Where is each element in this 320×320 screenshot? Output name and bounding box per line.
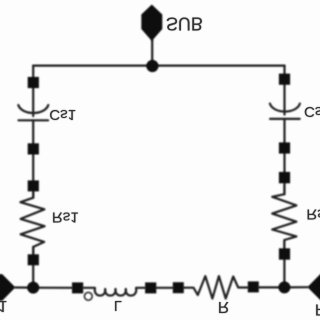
wire bottom: left junction to inductor pin (33, 287, 72, 289)
wire top horizontal bus (33, 64, 284, 66)
pin pad Rs2 top (279, 172, 290, 183)
label P1 (flipped, clipped at left edge) (0, 297, 7, 314)
svg-text:Rs1: Rs1 (52, 209, 79, 226)
junction node bottom-right (278, 281, 290, 293)
label R (flipped) (218, 298, 229, 315)
wire right branch lower (Rs2 to right junction) (283, 240, 285, 287)
svg-text:Rs2: Rs2 (306, 205, 320, 222)
capacitor Cs1 (18, 105, 48, 120)
wire left branch mid (Cs1 plate to Rs1) (32, 120, 34, 197)
svg-text:L: L (114, 297, 122, 313)
svg-text:SUB: SUB (166, 13, 203, 33)
wire right branch mid (Cs2 plate to Rs2) (283, 119, 285, 194)
pin pad R left (173, 282, 184, 293)
svg-text:P2: P2 (315, 301, 320, 318)
pin pad Cs2 top (279, 74, 290, 85)
wire SUB stem (151, 40, 153, 66)
svg-text:P1: P1 (0, 297, 7, 314)
junction node top (SUB bus) (146, 60, 158, 72)
inductor L (83, 288, 145, 300)
port P1 symbol (left, clipped) (0, 274, 15, 301)
wire left branch lower (Rs1 to left junction) (32, 247, 34, 288)
svg-text:Cs2: Cs2 (304, 103, 320, 120)
label Cs1 (flipped) (49, 106, 76, 123)
wire bottom: right junction to right port (284, 286, 307, 288)
wire right branch upper (corner to Cs2 curved plate) (283, 66, 285, 115)
pin pad L right (145, 282, 156, 293)
label Rs1 (flipped) (52, 209, 79, 226)
port SUB symbol (141, 5, 162, 42)
svg-text:Cs1: Cs1 (49, 106, 76, 123)
junction node bottom-left (27, 282, 39, 294)
resistor Rs1 (20, 192, 44, 255)
wire bottom: left port to left junction (15, 286, 33, 288)
label L (flipped) (114, 297, 122, 313)
pin pad Rs2 bottom (279, 248, 290, 259)
resistor Rs2 (272, 185, 296, 247)
pin pad Cs2 bottom (279, 142, 290, 153)
pin pad Rs1 bottom (28, 254, 39, 265)
pin pad Cs1 top (28, 77, 39, 88)
label P2 (flipped, clipped at right edge) (315, 301, 320, 318)
wire left branch upper (corner to Cs1 curved plate) (32, 66, 34, 116)
label Rs2 (flipped, clipped at edge) (306, 205, 320, 222)
resistor R (184, 276, 248, 298)
pin pad R right (248, 281, 259, 292)
wire bottom: resistor R to right junction (259, 286, 285, 288)
pin pad Cs1 bottom (28, 143, 39, 154)
capacitor Cs2 (270, 104, 300, 119)
port P2 symbol (right, clipped) (307, 274, 320, 301)
label Cs2 (flipped, clipped at edge) (304, 103, 320, 120)
wire bottom: inductor to resistor R (156, 287, 173, 289)
pin pad Rs1 top (28, 180, 39, 191)
svg-text:R: R (218, 298, 229, 315)
pin pad L left (72, 282, 83, 293)
label SUB (flipped) (166, 13, 203, 33)
